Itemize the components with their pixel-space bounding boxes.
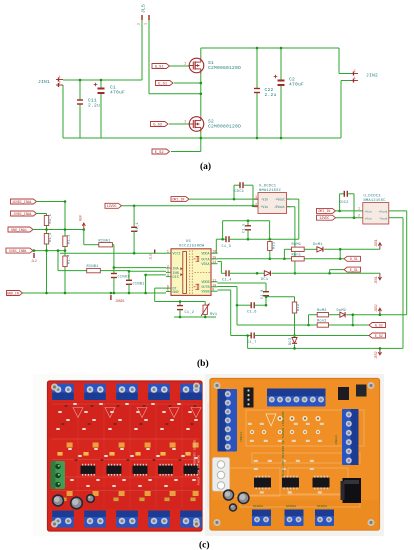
svg-text:R21: R21 (273, 242, 277, 249)
svg-text:Ron1: Ron1 (292, 254, 302, 258)
svg-text:JIN1: JIN1 (38, 79, 50, 85)
svg-text:GND: GND (173, 291, 179, 295)
svg-text:2.2u: 2.2u (88, 103, 100, 109)
svg-text:(a): (a) (200, 161, 211, 172)
svg-text:2: 2 (358, 213, 360, 217)
svg-text:C1_8: C1_8 (261, 289, 265, 299)
svg-text:GND_IN: GND_IN (7, 291, 19, 295)
svg-text:OUTB: OUTB (201, 286, 209, 290)
svg-text:(c): (c) (199, 540, 210, 550)
svg-text:CONVERTE ISOLADO: CONVERTE ISOLADO (194, 440, 197, 465)
svg-text:G_S1: G_S1 (350, 257, 358, 261)
svg-text:E_S1: E_S1 (158, 82, 168, 86)
svg-text:JGS1: JGS1 (374, 239, 378, 247)
svg-text:JES2: JES2 (374, 351, 378, 359)
svg-text:PLACA COM DRIVERS DE TENSAO IS: PLACA COM DRIVERS DE TENSAO ISOLADOS (282, 411, 285, 476)
svg-text:DoM1: DoM1 (313, 243, 323, 247)
svg-text:RINB1: RINB1 (87, 265, 99, 269)
svg-text:C2M0080120D: C2M0080120D (208, 124, 241, 130)
svg-text:C1_3: C1_3 (222, 245, 232, 249)
svg-text:C1_7: C1_7 (247, 341, 257, 345)
svg-text:R1_4: R1_4 (68, 254, 72, 264)
svg-text:RINA1: RINA1 (99, 240, 111, 244)
svg-text:VDDA: VDDA (201, 253, 210, 257)
svg-text:-0Vout: -0Vout (274, 205, 286, 209)
svg-text:+Vout: +Vout (378, 210, 387, 213)
svg-text:GND_INA1: GND_INA1 (11, 228, 27, 232)
svg-text:2: 2 (255, 204, 257, 208)
svg-text:12VDC: 12VDC (319, 216, 329, 220)
svg-text:C1_1: C1_1 (136, 222, 140, 232)
svg-text:E_S1: E_S1 (350, 268, 358, 272)
svg-text:12VDC: 12VDC (107, 204, 117, 208)
svg-text:G_S2: G_S2 (153, 123, 162, 127)
svg-text:JGND1: JGND1 (115, 299, 125, 303)
svg-text:SAIDA3: SAIDA3 (317, 505, 327, 508)
svg-text:DC3: DC3 (289, 338, 293, 345)
svg-text:470uF: 470uF (110, 90, 125, 96)
svg-text:C1_2: C1_2 (185, 311, 195, 315)
svg-text:SAIDA2: SAIDA2 (286, 505, 296, 508)
svg-text:1: 1 (145, 23, 149, 25)
svg-text:+Vin: +Vin (365, 209, 372, 213)
svg-text:R1_2: R1_2 (49, 232, 53, 242)
svg-text:CINA1: CINA1 (118, 276, 130, 280)
svg-text:DRI_IN: DRI_IN (318, 209, 330, 213)
svg-text:R1_1: R1_1 (49, 214, 53, 224)
svg-text:-5VDC_INA1: -5VDC_INA1 (12, 212, 32, 216)
svg-text:1: 1 (358, 207, 360, 211)
svg-text:G_S2: G_S2 (375, 323, 383, 327)
svg-text:+Vin: +Vin (261, 205, 269, 209)
svg-text:DIS: DIS (173, 276, 179, 280)
svg-text:5VDC_INB1: 5VDC_INB1 (9, 249, 27, 253)
svg-text:-Vout: -Vout (378, 218, 387, 221)
svg-text:JES1: JES1 (374, 276, 378, 284)
svg-text:PLACA COM TECNOLOG: PLACA COM TECNOLOG (198, 455, 201, 486)
svg-text:CDC2: CDC2 (339, 201, 349, 205)
svg-text:A5V: A5V (79, 215, 83, 221)
svg-text:JL5: JL5 (141, 4, 147, 13)
svg-text:1: 1 (184, 62, 186, 66)
svg-text:2.2u: 2.2u (265, 92, 277, 98)
svg-text:JIN2: JIN2 (366, 73, 378, 79)
svg-text:CINB1: CINB1 (133, 283, 145, 287)
svg-text:VDDB: VDDB (201, 281, 209, 285)
svg-text:OUTA: OUTA (201, 258, 210, 262)
svg-text:CDC1: CDC1 (235, 190, 245, 194)
svg-text:C2M0080120D: C2M0080120D (208, 65, 241, 71)
svg-text:R1_3: R1_3 (68, 234, 72, 244)
svg-text:C1_4: C1_4 (222, 279, 232, 283)
svg-text:R22: R22 (297, 304, 301, 311)
svg-text:DC1: DC1 (261, 278, 268, 282)
svg-text:E_S2: E_S2 (375, 334, 383, 338)
svg-text:JL2: JL2 (31, 259, 37, 263)
svg-text:VCCI: VCCI (173, 253, 181, 257)
svg-text:(b): (b) (197, 358, 209, 369)
svg-text:1: 1 (184, 120, 186, 124)
svg-text:RoM2: RoM2 (317, 309, 327, 313)
svg-text:UCC21520DW: UCC21520DW (179, 244, 205, 248)
svg-text:+Vin: +Vin (365, 217, 372, 221)
svg-text:-Vin: -Vin (261, 198, 269, 202)
svg-text:2: 2 (138, 23, 142, 25)
svg-text:15VDC_INA1: 15VDC_INA1 (12, 200, 32, 204)
svg-text:VSSB: VSSB (201, 291, 209, 295)
svg-text:SAIDA1: SAIDA1 (253, 505, 263, 508)
svg-text:VSSA: VSSA (201, 263, 210, 267)
svg-text:1: 1 (255, 196, 257, 200)
svg-text:CANAL2: CANAL2 (335, 435, 338, 445)
svg-text:G_S1: G_S1 (155, 65, 165, 69)
svg-text:DoM2: DoM2 (337, 309, 347, 313)
svg-text:Ron2: Ron2 (317, 320, 327, 324)
svg-text:CANAL1: CANAL1 (240, 432, 243, 442)
svg-text:RoM1: RoM1 (292, 243, 302, 247)
svg-text:NMA1215SC: NMA1215SC (259, 189, 282, 193)
svg-text:NMA1215SC: NMA1215SC (364, 199, 387, 203)
svg-text:RV1: RV1 (210, 313, 217, 317)
svg-text:470uF: 470uF (289, 82, 304, 88)
svg-text:C1_6: C1_6 (247, 311, 257, 315)
svg-text:C1_5: C1_5 (243, 223, 247, 233)
svg-text:JL3: JL3 (149, 254, 153, 260)
svg-text:+Vout: +Vout (275, 198, 285, 202)
svg-text:E_S2: E_S2 (155, 151, 164, 155)
svg-text:INA: INA (173, 267, 180, 271)
svg-text:DRI_IN: DRI_IN (172, 197, 184, 201)
svg-text:JGS2: JGS2 (374, 304, 378, 312)
